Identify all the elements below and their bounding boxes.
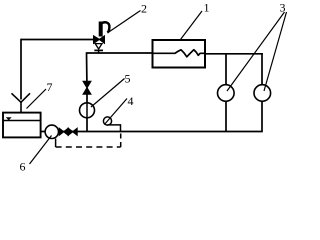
pump P6 (label 6) [45, 125, 58, 138]
wire: flowmeter F5 down to bottom pipe [86, 118, 88, 132]
funnel on tank [12, 93, 31, 113]
wire: valve 5 to flowmeter F5 [86, 94, 88, 104]
valve V6b (second bowtie after pump) [68, 128, 77, 135]
valve V2 actuator stem with exhaust hook [101, 22, 110, 37]
flowmeter G1 (left circle of label 3) [218, 85, 235, 102]
dashed signal line: pump to regulator R4 [56, 134, 121, 148]
wire: G1 down to bottom pipe [225, 101, 227, 132]
valve V2 body (angle safety valve, label 2) [94, 36, 105, 54]
svg-text:6: 6 [20, 160, 26, 173]
leader line to label 4 [104, 99, 127, 125]
leader line from label 3 to G1 [227, 12, 285, 91]
leader line from label 3 to G2 [264, 12, 287, 91]
wire: pipe from heater to right elbow [205, 53, 263, 55]
svg-text:2: 2 [141, 2, 147, 16]
wire: left vertical feed pipe down to funnel [20, 39, 22, 100]
svg-text:5: 5 [125, 72, 131, 86]
heater U1 (label 1): box with heating element [153, 40, 206, 68]
svg-text:4: 4 [128, 94, 134, 108]
leader line to label 5 [91, 79, 125, 108]
wire: vertical branch pipe down to valve 5 [86, 52, 88, 82]
flowmeter F5 circle (label 5) [80, 103, 95, 118]
leader line to label 7 [27, 89, 47, 109]
wire: right elbow down to flowmeter G2 [261, 53, 263, 85]
leader line to label 2 [109, 11, 141, 33]
wire: line through flowmeter F5 [86, 104, 88, 118]
tank T7 (label 7) [3, 113, 41, 138]
flowmeter G2 (right circle of label 3) [254, 85, 271, 102]
valve V6a (first bowtie after pump) [59, 128, 68, 135]
svg-text:1: 1 [204, 1, 210, 15]
valve 5 (vertical bowtie valve) [83, 81, 91, 94]
svg-text:7: 7 [47, 80, 53, 94]
svg-text:3: 3 [280, 1, 286, 15]
leader line to label 6 [30, 136, 52, 165]
wire: pipe from valve V2 area to heater [87, 52, 153, 54]
wire: G2 down to bottom pipe [261, 101, 263, 132]
wire: bottom main pipe [58, 131, 262, 133]
wire: top-left horizontal pipe [21, 39, 94, 41]
wire: tank to pump stub [41, 131, 46, 133]
regulator R4 (label 4): small circle on bracket [103, 117, 120, 132]
leader line to label 1 [181, 11, 203, 40]
wire: tee branch down to flowmeter G1 [225, 53, 227, 85]
